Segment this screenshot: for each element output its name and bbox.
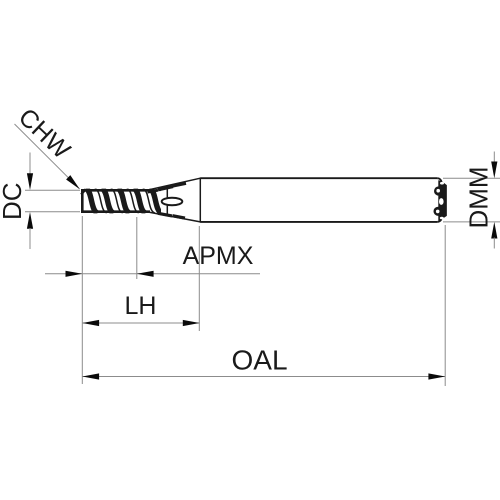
cutter tip face bbox=[81, 189, 84, 213]
OAL dim line bbox=[82, 376, 445, 378]
shank end bottom knob center bbox=[436, 210, 440, 214]
DMM arrow top bbox=[491, 162, 497, 179]
DC arrow bottom bbox=[27, 212, 33, 229]
shank bottom edge bbox=[200, 221, 437, 223]
DC extension line bottom bbox=[25, 211, 80, 213]
shank left face bbox=[199, 178, 201, 223]
DC extension line top bbox=[25, 189, 80, 191]
CHW leader line bbox=[15, 124, 80, 189]
flute runout mark bottom right bbox=[173, 216, 186, 218]
shank end top knob bbox=[434, 186, 443, 195]
APMX extension line bbox=[136, 217, 138, 279]
flute bottom edge bbox=[81, 210, 150, 213]
DMM arrow bottom bbox=[491, 222, 497, 239]
shank end top knob center bbox=[436, 189, 440, 193]
svg-text:APMX: APMX bbox=[183, 242, 254, 270]
LH arrow right bbox=[183, 320, 200, 326]
taper bottom line bbox=[148, 212, 200, 222]
tip chamfer bbox=[81, 189, 85, 194]
APMX arrow left bbox=[66, 271, 83, 277]
shank end mid pocket bbox=[439, 198, 444, 205]
svg-text:OAL: OAL bbox=[231, 345, 287, 376]
flute runout mark bottom left bbox=[158, 213, 172, 216]
shank end top pocket bbox=[440, 182, 444, 185]
DMM extension line top bbox=[443, 177, 500, 179]
flute end line bbox=[166, 186, 168, 217]
flute runout mark top right bbox=[173, 183, 187, 186]
svg-text:DMM: DMM bbox=[464, 166, 494, 228]
OAL arrow left bbox=[82, 373, 99, 379]
OAL extension line right bbox=[444, 225, 446, 386]
LH arrow left bbox=[82, 320, 99, 326]
svg-text:DC: DC bbox=[0, 182, 27, 220]
OAL extension line left bbox=[81, 216, 83, 384]
shank end cap body bbox=[438, 180, 446, 220]
LH dim line bbox=[82, 322, 199, 324]
DMM extension line bottom bbox=[443, 221, 500, 223]
shank end bottom knob bbox=[434, 207, 443, 216]
neck ellipse bbox=[162, 198, 183, 206]
LH extension line right bbox=[198, 226, 200, 331]
DMM dim line top bbox=[493, 152, 495, 164]
flute hatching bbox=[86, 189, 187, 213]
OAL arrow right bbox=[428, 373, 445, 379]
APMX dim line bbox=[45, 273, 260, 275]
taper top line bbox=[148, 178, 200, 190]
DMM dim line bottom bbox=[493, 238, 495, 249]
shank end outline bbox=[437, 178, 446, 222]
CHW leader arrowhead bbox=[66, 175, 80, 189]
shank end bottom pocket bbox=[440, 217, 444, 220]
DC dim line top bbox=[29, 153, 31, 175]
APMX arrow right bbox=[137, 271, 154, 277]
DC arrow top bbox=[27, 173, 33, 190]
svg-text:LH: LH bbox=[125, 292, 157, 320]
flute runout mark top left bbox=[148, 190, 159, 192]
shank top edge bbox=[200, 177, 437, 179]
DC dim line bottom bbox=[29, 228, 31, 249]
flute runout mark top mid bbox=[158, 187, 173, 190]
flute top edge bbox=[81, 189, 150, 192]
